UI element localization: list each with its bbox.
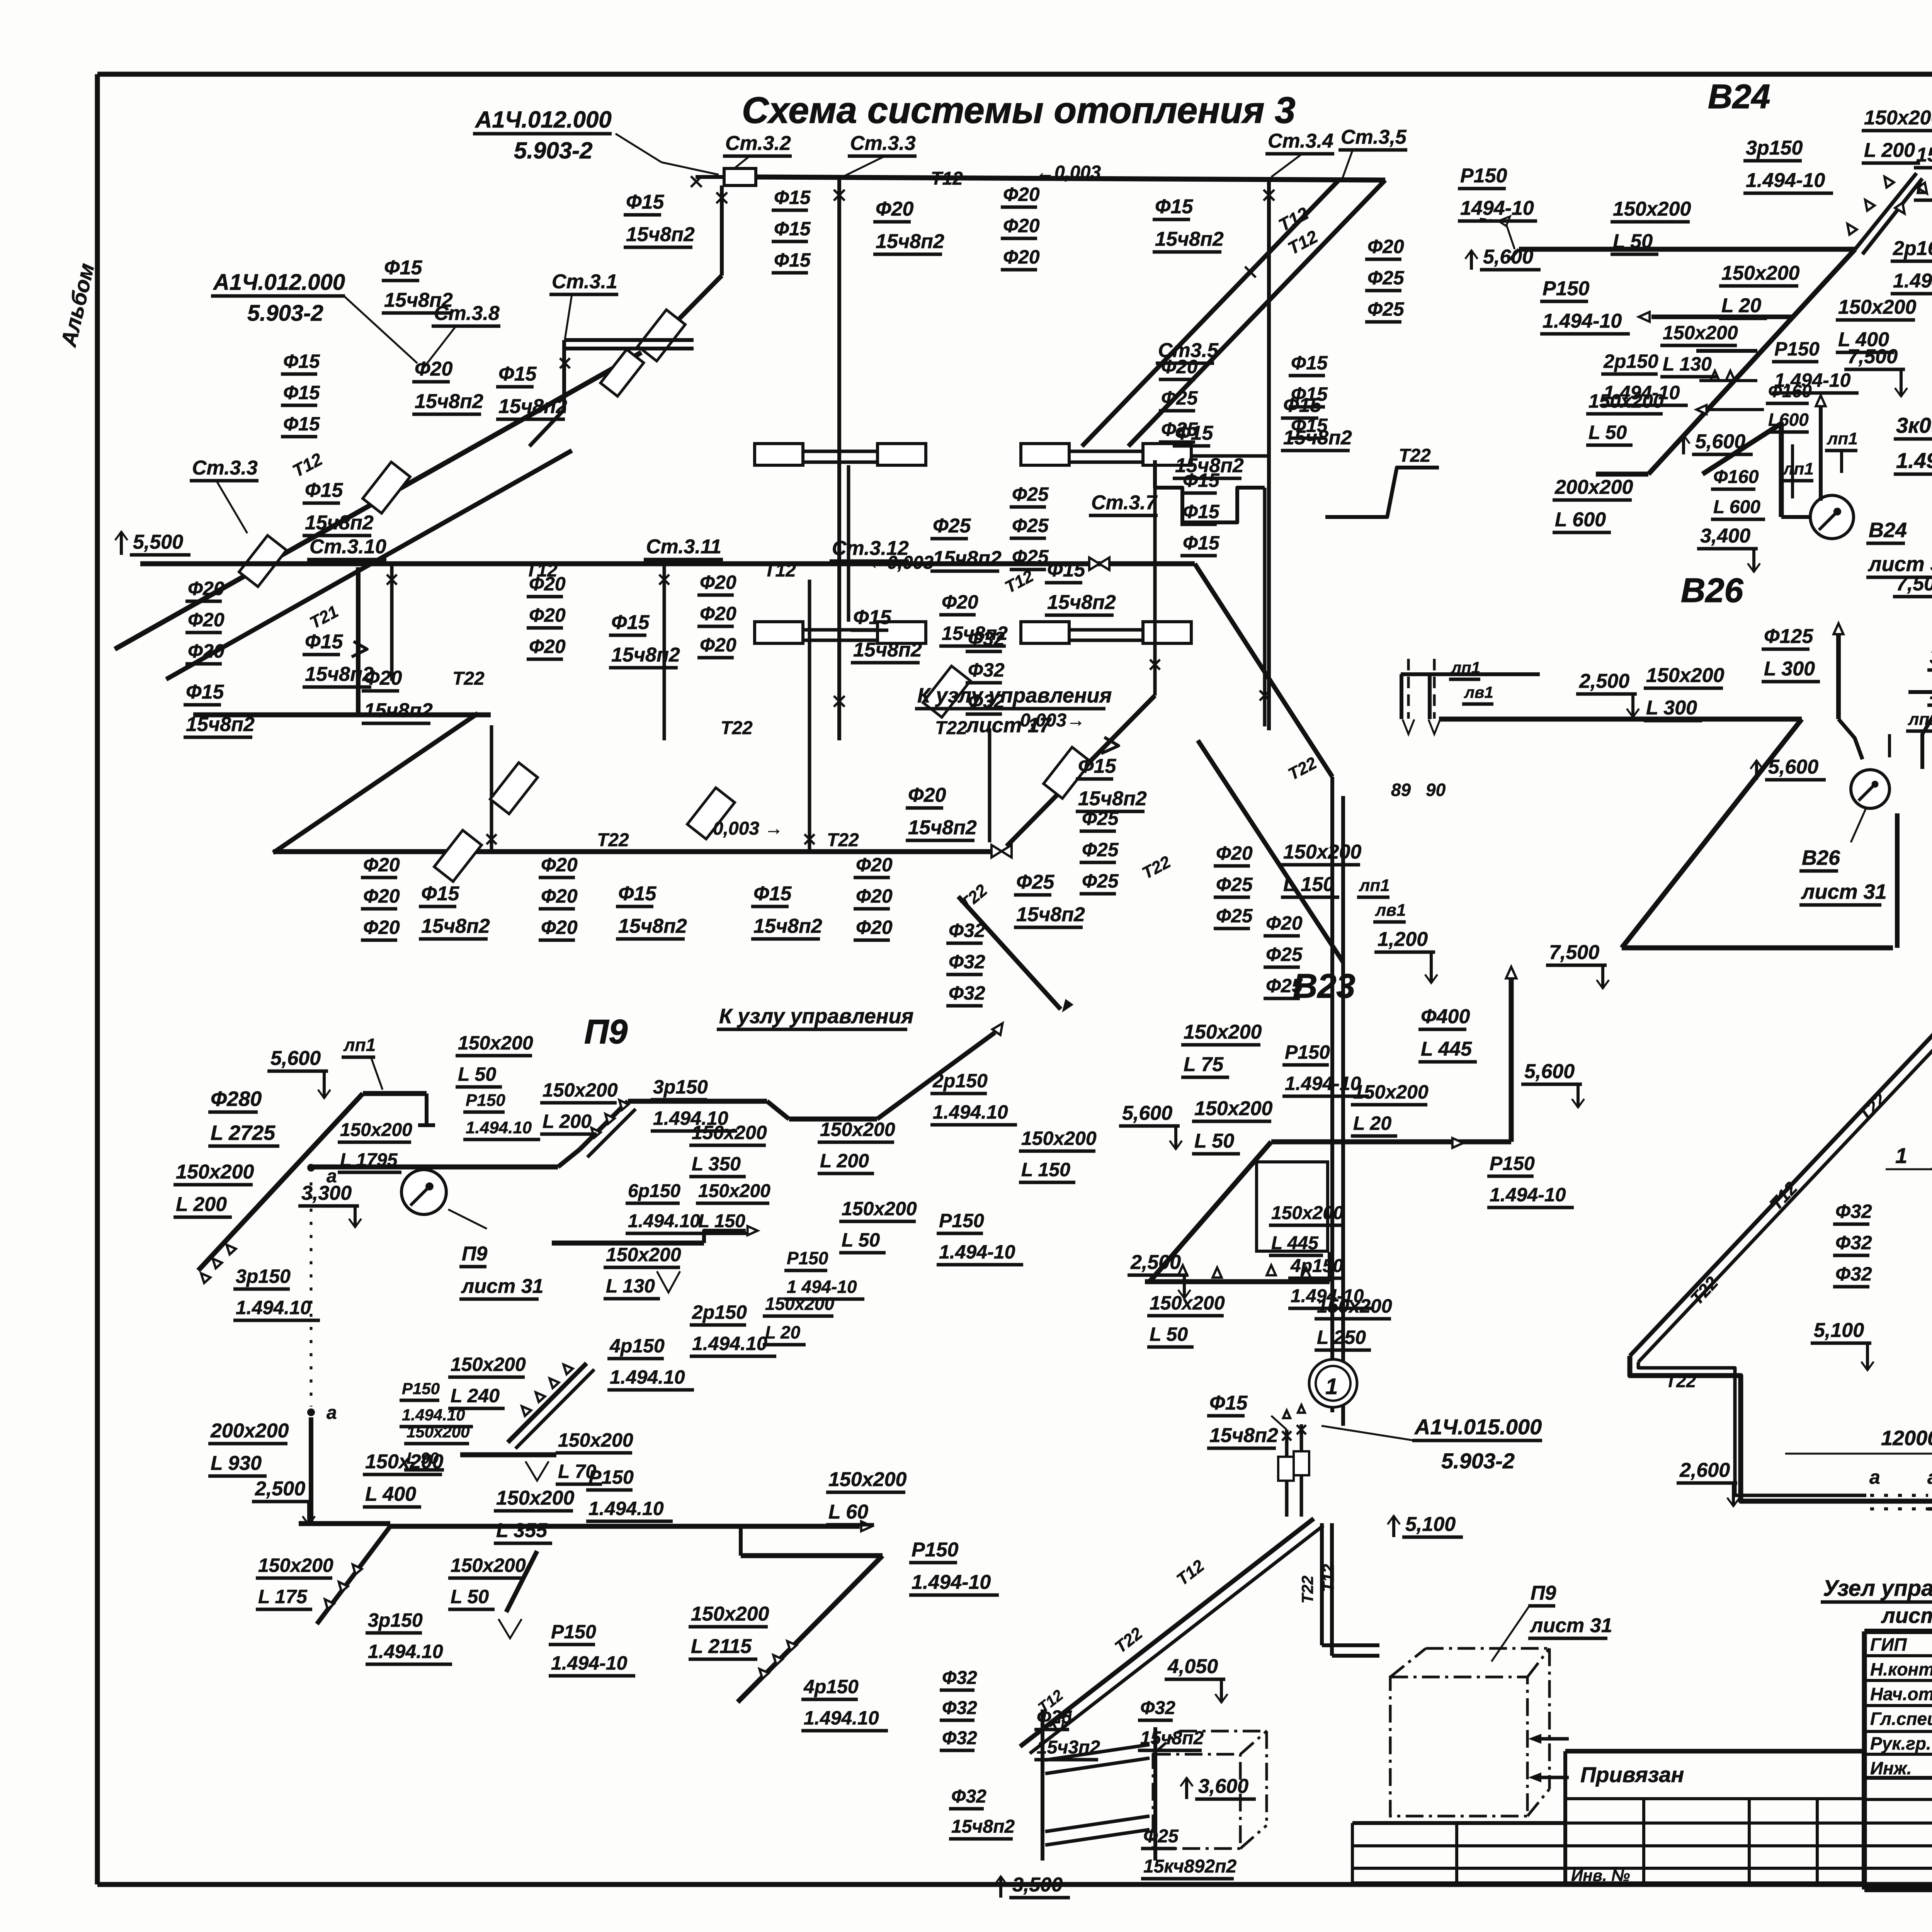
svg-text:150х200: 150х200 bbox=[1663, 322, 1738, 344]
svg-text:Р150: Р150 bbox=[1460, 165, 1507, 187]
svg-text:150х200: 150х200 bbox=[1838, 296, 1917, 318]
svg-text:Ф20: Ф20 bbox=[1367, 236, 1404, 257]
elev B26 5600b bbox=[1750, 756, 1826, 780]
svg-text:L 200: L 200 bbox=[543, 1111, 592, 1132]
svg-text:L 2725: L 2725 bbox=[211, 1121, 276, 1145]
label P9 150x200 L400 bbox=[363, 1451, 444, 1507]
svg-text:лист 17: лист 17 bbox=[1881, 1603, 1932, 1628]
label Ф15 bot2 bbox=[616, 883, 687, 939]
label Ф20 stack top bbox=[1001, 184, 1040, 270]
svg-text:Ф20: Ф20 bbox=[529, 636, 566, 657]
svg-text:Ф15: Ф15 bbox=[774, 218, 811, 240]
svg-text:L600: L600 bbox=[1768, 410, 1809, 430]
svg-text:15ч8п2: 15ч8п2 bbox=[626, 223, 695, 246]
svg-text:Ф25: Ф25 bbox=[1216, 874, 1253, 895]
svg-text:Ф400: Ф400 bbox=[1421, 1005, 1470, 1028]
label P9 150x200 L240 bbox=[448, 1354, 526, 1408]
svg-text:5,600: 5,600 bbox=[270, 1047, 321, 1070]
arrow end control node bbox=[1059, 1000, 1073, 1014]
svg-text:150х200: 150х200 bbox=[691, 1603, 769, 1625]
svg-text:3к00.000: 3к00.000 bbox=[1930, 644, 1932, 668]
svg-text:15ч8п2: 15ч8п2 bbox=[364, 699, 433, 722]
svg-text:7,500: 7,500 bbox=[1896, 573, 1932, 595]
svg-text:Схема системы отопления 3: Схема системы отопления 3 bbox=[742, 90, 1295, 131]
radiator slanted B5 bbox=[1044, 747, 1091, 799]
svg-text:Ф20: Ф20 bbox=[876, 198, 914, 220]
svg-text:Ф15: Ф15 bbox=[1047, 559, 1086, 581]
pipe B24 fan link bbox=[1781, 515, 1811, 519]
valve st35B bbox=[1260, 690, 1270, 701]
label Ст3.10 bbox=[307, 536, 386, 560]
svg-text:В23: В23 bbox=[1293, 967, 1355, 1005]
pipe Ст3.1 double h B bbox=[564, 347, 694, 350]
radiator Ст3.4 r1 right bbox=[1143, 444, 1191, 465]
label B26 лп1 лв1 bbox=[1449, 658, 1480, 679]
label P9 Р150 c bbox=[400, 1379, 473, 1427]
label Ф20 g bbox=[362, 667, 433, 723]
wire node1 mid riser bbox=[1153, 1727, 1157, 1861]
svg-text:150х200: 150х200 bbox=[1283, 841, 1362, 863]
svg-text:Ф25: Ф25 bbox=[1161, 418, 1198, 440]
arrow P9 2p150 V bbox=[657, 1271, 680, 1293]
label P9 3р150 b bbox=[651, 1076, 737, 1131]
label Ф15 15ч8п2 a bbox=[1153, 196, 1224, 252]
svg-text:L 50: L 50 bbox=[451, 1586, 489, 1607]
svg-text:Т22: Т22 bbox=[1665, 1371, 1696, 1391]
svg-text:150х200: 150х200 bbox=[1317, 1295, 1392, 1317]
pipe P9 h L130 bbox=[552, 1241, 704, 1246]
label P9 150x200 L2115 bbox=[689, 1603, 769, 1659]
label P9 150x200 L150a bbox=[1019, 1128, 1097, 1182]
wire B26 lp stub bbox=[1888, 734, 1891, 757]
arrow P9 exit3 tris bbox=[756, 1666, 769, 1679]
label P9 150x200 L355 bbox=[494, 1487, 575, 1543]
pipe Ст3.4 r1 to riser bbox=[1192, 454, 1269, 458]
page border frame bbox=[97, 72, 1932, 77]
arrow B24 h2 bbox=[1639, 312, 1650, 321]
svg-text:150х200: 150х200 bbox=[558, 1429, 633, 1451]
elev P9 2500 bbox=[252, 1478, 315, 1525]
svg-text:Ф32: Ф32 bbox=[942, 1668, 977, 1688]
svg-text:L 400: L 400 bbox=[365, 1483, 416, 1505]
label P9 лп1 bbox=[342, 1035, 376, 1057]
svg-text:L 930: L 930 bbox=[211, 1452, 262, 1475]
radiator Ст3.3 r2 left bbox=[755, 622, 803, 643]
pipe B23 diagonal bbox=[1150, 1142, 1271, 1282]
svg-text:Ф20: Ф20 bbox=[364, 667, 402, 689]
pipe B25 pair cont bbox=[1928, 1507, 1932, 1511]
arrow B24 t1 bbox=[1711, 371, 1719, 380]
radiator slanted A1 bbox=[638, 310, 685, 361]
elev B25 5100 bbox=[1811, 1319, 1874, 1370]
pipe node1 diag pair A bbox=[1020, 1519, 1314, 1747]
pipe T12 diag down A bbox=[1128, 180, 1385, 446]
svg-text:L 175: L 175 bbox=[258, 1586, 308, 1607]
svg-text:Ф25: Ф25 bbox=[933, 515, 971, 537]
valve lower riser2 bbox=[804, 834, 815, 844]
svg-text:лп1: лп1 bbox=[1827, 429, 1858, 448]
svg-text:П9: П9 bbox=[584, 1012, 628, 1051]
svg-text:Ф15: Ф15 bbox=[283, 413, 320, 435]
label Ст3.5 b bbox=[1156, 339, 1219, 363]
svg-text:Ф15: Ф15 bbox=[384, 257, 423, 279]
svg-text:Ф25: Ф25 bbox=[1161, 387, 1198, 409]
svg-text:L 20: L 20 bbox=[1721, 294, 1761, 317]
svg-text:Ф32: Ф32 bbox=[949, 920, 985, 941]
point a bottom bbox=[307, 1408, 315, 1416]
label Ф32 stack a bbox=[966, 628, 1005, 714]
svg-text:Ф25: Ф25 bbox=[1016, 871, 1055, 893]
svg-text:Ф20: Ф20 bbox=[700, 634, 736, 656]
svg-text:Инв. №: Инв. № bbox=[1571, 1866, 1630, 1884]
pipe B23 right ext bbox=[1328, 1252, 1332, 1282]
label B24 Р150 b bbox=[1540, 277, 1630, 334]
pipe T22 Z diag bbox=[273, 713, 478, 853]
wire node1 riser a bbox=[1285, 1430, 1289, 1517]
elev node1 3500 bbox=[995, 1874, 1070, 1898]
svg-text:Ф32: Ф32 bbox=[942, 1698, 977, 1718]
elev B24 7500 bbox=[1844, 345, 1907, 396]
label P9 150x200 L350 bbox=[689, 1122, 767, 1177]
label node1 Ф32 stack bbox=[940, 1668, 977, 1750]
svg-text:Р150: Р150 bbox=[1285, 1041, 1330, 1063]
component node1 box a bbox=[1278, 1457, 1294, 1481]
arrow P9 diag tip bbox=[992, 1020, 1007, 1035]
svg-text:15ч8п2: 15ч8п2 bbox=[305, 512, 374, 534]
label B24 150x200 L50a bbox=[1611, 198, 1691, 254]
label Ст3.3 left bbox=[190, 457, 259, 481]
arrow P9 V mid bbox=[526, 1461, 549, 1481]
svg-text:L 240: L 240 bbox=[451, 1385, 500, 1406]
label B24 150x200 L50b bbox=[1586, 390, 1664, 445]
wire P9 vert left bbox=[309, 1417, 313, 1524]
label лп1 r bbox=[1357, 876, 1390, 897]
svg-text:1.494.10: 1.494.10 bbox=[610, 1366, 685, 1388]
label B24 2р150 bbox=[1601, 350, 1688, 405]
label Ф20 под ст38 bbox=[412, 358, 483, 414]
svg-text:Р150: Р150 bbox=[402, 1379, 440, 1398]
wire riser st311 bbox=[663, 564, 666, 740]
arrow B24 dd1 bbox=[1861, 197, 1874, 211]
wire node1 vert pair B bbox=[1330, 1523, 1334, 1656]
svg-text:150х200: 150х200 bbox=[692, 1122, 767, 1143]
label Ст3.5 top bbox=[1338, 126, 1407, 150]
label Ст3.8 bbox=[432, 302, 500, 326]
svg-text:В26: В26 bbox=[1802, 846, 1840, 869]
label Ф15 n bbox=[1281, 394, 1352, 451]
svg-text:5,100: 5,100 bbox=[1814, 1319, 1864, 1342]
svg-text:150х200: 150х200 bbox=[258, 1554, 333, 1576]
label к узлу упр 1 bbox=[915, 684, 1112, 709]
svg-text:7,500: 7,500 bbox=[1549, 941, 1599, 964]
elev P9 3300 bbox=[298, 1182, 361, 1227]
svg-text:Ф15: Ф15 bbox=[1183, 469, 1220, 491]
pipe B23 f400 vert bbox=[1509, 978, 1514, 1142]
wire B24 lp1 stub bbox=[1791, 444, 1794, 498]
label Ст3.1 bbox=[549, 270, 618, 294]
svg-text:Ф25: Ф25 bbox=[1266, 944, 1303, 965]
svg-text:L 150: L 150 bbox=[1021, 1159, 1070, 1180]
svg-text:Ф20: Ф20 bbox=[942, 591, 978, 613]
svg-text:L 2115: L 2115 bbox=[691, 1635, 752, 1658]
svg-text:3,300: 3,300 bbox=[301, 1182, 352, 1204]
label node1 Ф15 bbox=[1207, 1392, 1278, 1448]
svg-text:1.494-10: 1.494-10 bbox=[1490, 1184, 1566, 1206]
arrow B26 down b bbox=[1429, 719, 1440, 734]
svg-text:Ф32: Ф32 bbox=[1140, 1698, 1175, 1718]
svg-text:1.494.10: 1.494.10 bbox=[628, 1211, 700, 1231]
svg-text:150х200: 150х200 bbox=[458, 1032, 533, 1054]
svg-text:7,500: 7,500 bbox=[1847, 345, 1898, 368]
pipe st35 zigzag bbox=[1155, 460, 1265, 522]
radiator slanted B2 bbox=[434, 830, 482, 882]
svg-text:Ст.3.4: Ст.3.4 bbox=[1268, 130, 1333, 152]
label P9 150x200 L1795 bbox=[338, 1120, 412, 1172]
label Ф20 o bbox=[906, 784, 977, 840]
svg-text:Ф15: Ф15 bbox=[283, 350, 320, 372]
arrow B24 h5 bbox=[1696, 405, 1706, 414]
svg-text:150х200: 150х200 bbox=[1721, 262, 1800, 284]
label Ф15 triple b bbox=[281, 350, 320, 437]
svg-text:L 150: L 150 bbox=[698, 1211, 745, 1231]
svg-text:Ст.3.1: Ст.3.1 bbox=[552, 270, 617, 293]
pipe node1 diag pair B bbox=[1030, 1526, 1323, 1753]
svg-text:150х200: 150х200 bbox=[340, 1120, 412, 1140]
elev node1 5100 bbox=[1388, 1513, 1463, 1537]
label P9 4р150 b bbox=[801, 1676, 888, 1731]
label 150x200 L150 bbox=[1281, 841, 1362, 897]
svg-text:Ф15: Ф15 bbox=[1183, 532, 1220, 554]
label P9 3р150 c bbox=[366, 1609, 452, 1664]
svg-text:5.903-2: 5.903-2 bbox=[1441, 1449, 1515, 1473]
radiator slanted C1 bbox=[600, 349, 644, 396]
pipe P9 diag exit1 bbox=[317, 1526, 390, 1624]
svg-text:Инж.: Инж. bbox=[1870, 1758, 1912, 1778]
svg-text:15кч892п2: 15кч892п2 bbox=[1143, 1856, 1236, 1877]
svg-text:Ст.3.12: Ст.3.12 bbox=[832, 537, 909, 560]
wire T22 Z vertical bbox=[356, 567, 361, 713]
arrow B24 riser top bbox=[1816, 395, 1825, 406]
svg-text:3р150: 3р150 bbox=[236, 1265, 291, 1287]
label Ф15 d bbox=[303, 479, 374, 536]
pipe P9 diag up right bbox=[877, 1032, 995, 1119]
svg-text:1: 1 bbox=[1895, 1143, 1907, 1168]
label Ф15 triple a bbox=[772, 187, 811, 273]
elev B23 5600b bbox=[1521, 1060, 1584, 1107]
arrow B26 riser top bbox=[1833, 623, 1843, 634]
svg-text:А1Ч.012.000: А1Ч.012.000 bbox=[213, 270, 345, 295]
elev node1 4050 bbox=[1165, 1655, 1228, 1702]
valve T22 bottom 2 bbox=[992, 845, 1012, 857]
svg-text:4,050: 4,050 bbox=[1167, 1655, 1218, 1678]
valve lower riser1 bbox=[486, 834, 497, 844]
label B24 3р150 bbox=[1743, 137, 1833, 193]
wire riser st310 bbox=[390, 564, 394, 681]
pipe B24 main h bbox=[1519, 247, 1855, 252]
svg-text:Ф20: Ф20 bbox=[541, 885, 578, 907]
label node1 Ф32 b bbox=[1138, 1698, 1204, 1750]
svg-text:а: а bbox=[1869, 1466, 1880, 1488]
svg-text:15ч8п2: 15ч8п2 bbox=[611, 644, 680, 666]
svg-text:1.494-10: 1.494-10 bbox=[939, 1241, 1015, 1263]
wire st35 riser B bbox=[1263, 488, 1267, 726]
svg-text:Т12: Т12 bbox=[931, 168, 963, 189]
svg-text:П9: П9 bbox=[462, 1243, 487, 1265]
pipe B25 elbow bottom bbox=[1630, 1356, 1932, 1564]
svg-text:лист 31: лист 31 bbox=[1801, 880, 1887, 903]
pipe B23 top bar bbox=[1271, 1139, 1511, 1145]
svg-text:L 50: L 50 bbox=[1588, 422, 1627, 443]
svg-text:лп1: лп1 bbox=[1451, 658, 1480, 677]
svg-text:150х200: 150х200 bbox=[1864, 107, 1932, 129]
label Ст3.2 bbox=[723, 132, 792, 156]
svg-text:150х200: 150х200 bbox=[1646, 664, 1725, 687]
pipe B26 bottom h bbox=[1622, 946, 1893, 951]
elev 5,500 bbox=[115, 531, 190, 555]
svg-text:Ф20: Ф20 bbox=[700, 571, 736, 593]
svg-text:15ч8п2: 15ч8п2 bbox=[415, 390, 483, 413]
label Ф20 j bbox=[939, 591, 1008, 646]
svg-text:Ф20: Ф20 bbox=[856, 917, 893, 938]
arrow P9 mid tris bbox=[519, 1403, 531, 1416]
svg-text:лп1: лп1 bbox=[1359, 876, 1390, 895]
arrow tankB in1 bbox=[1538, 1737, 1569, 1741]
svg-text:Т22: Т22 bbox=[827, 830, 859, 850]
svg-text:15ч8п2: 15ч8п2 bbox=[618, 915, 687, 937]
valve node1 a bbox=[1282, 1431, 1291, 1440]
label P9 200x200 L930 bbox=[208, 1420, 289, 1476]
label P9 150x200 L70 bbox=[556, 1429, 633, 1484]
svg-text:89: 89 bbox=[1391, 780, 1411, 800]
label B26 ф125 a bbox=[1762, 625, 1820, 682]
svg-text:150х200: 150х200 bbox=[1021, 1128, 1097, 1149]
svg-text:Р150: Р150 bbox=[466, 1091, 505, 1110]
svg-text:200х200: 200х200 bbox=[210, 1420, 289, 1442]
pipe B26 S curve bbox=[1838, 719, 1862, 759]
pipe node1 cross pair2 bbox=[1045, 1816, 1150, 1832]
svg-text:ГИП: ГИП bbox=[1870, 1634, 1907, 1655]
label B24 2р160 bbox=[1891, 237, 1932, 294]
label B23 150x200 L445 bbox=[1269, 1203, 1344, 1255]
wire P9 top stub bbox=[425, 1094, 429, 1125]
pipe B24 h3 bbox=[1696, 349, 1757, 353]
svg-text:1.494-32: 1.494-32 bbox=[1896, 448, 1932, 473]
elev B25 2600 bbox=[1677, 1459, 1740, 1506]
fan В26 bbox=[1851, 770, 1889, 808]
pipe P9 mid connect bbox=[556, 1430, 587, 1455]
svg-text:Ст.3.11: Ст.3.11 bbox=[646, 536, 721, 558]
svg-text:Т22: Т22 bbox=[597, 830, 629, 850]
pipe P9 h sub bbox=[741, 1553, 883, 1558]
pipe node1 elbow A bbox=[1322, 1643, 1379, 1647]
svg-text:Р150: Р150 bbox=[912, 1539, 959, 1561]
label Ф15 bot3 bbox=[751, 883, 822, 939]
pipe P9 mid bundle B bbox=[515, 1369, 594, 1449]
svg-text:Ф25: Ф25 bbox=[1082, 870, 1119, 892]
label P9 ф280 bbox=[208, 1087, 279, 1146]
elev node1 3600 bbox=[1180, 1775, 1256, 1799]
svg-text:L 160: L 160 bbox=[1916, 176, 1932, 199]
svg-text:Ф20: Ф20 bbox=[529, 573, 566, 595]
wire B24 lp1 stub2 bbox=[1840, 451, 1843, 473]
svg-text:Ф20: Ф20 bbox=[188, 640, 224, 662]
svg-text:Ф15: Ф15 bbox=[498, 363, 537, 385]
svg-text:1: 1 bbox=[1325, 1374, 1338, 1399]
pipe P9 jog diag bbox=[558, 1150, 580, 1167]
label P9 150x200 L50d bbox=[448, 1554, 526, 1609]
svg-text:L 50: L 50 bbox=[1613, 230, 1653, 253]
svg-text:5,100: 5,100 bbox=[1405, 1513, 1456, 1536]
elev B24 5600 left bbox=[1465, 246, 1541, 270]
pipe P9 bottom short h bbox=[299, 1521, 390, 1526]
arrow P9 bundle tris bbox=[588, 1125, 600, 1138]
elev B23 2500 bbox=[1128, 1251, 1190, 1298]
svg-text:L 445: L 445 bbox=[1421, 1038, 1472, 1060]
svg-text:L 130: L 130 bbox=[1663, 353, 1712, 375]
svg-text:12000: 12000 bbox=[1881, 1427, 1932, 1450]
arrow P9 main tip bbox=[861, 1521, 872, 1531]
label B23 4р150 bbox=[1288, 1256, 1371, 1308]
svg-text:1.494-10: 1.494-10 bbox=[1543, 310, 1622, 332]
svg-text:3р150: 3р150 bbox=[1746, 137, 1803, 159]
svg-text:Ф20: Ф20 bbox=[1003, 215, 1040, 236]
svg-text:5,600: 5,600 bbox=[1524, 1060, 1575, 1083]
label node1 Ф25 b bbox=[1141, 1826, 1236, 1879]
svg-text:Ст.3.8: Ст.3.8 bbox=[434, 302, 500, 325]
pipe P9 main long h bbox=[390, 1524, 860, 1529]
label B24 150x200 L160 bbox=[1914, 144, 1932, 200]
svg-text:А1Ч.015.000: А1Ч.015.000 bbox=[1414, 1415, 1542, 1439]
pipe T12 mid main bbox=[140, 561, 1195, 566]
pipe B23 bottom bar bbox=[1145, 1279, 1330, 1284]
svg-text:Ф25: Ф25 bbox=[1367, 298, 1405, 320]
svg-text:Ф15: Ф15 bbox=[1183, 501, 1220, 522]
label Ст3.4 bbox=[1265, 130, 1334, 154]
svg-text:L 250: L 250 bbox=[1317, 1327, 1366, 1348]
svg-text:L 200: L 200 bbox=[1864, 139, 1915, 162]
svg-text:150х200: 150х200 bbox=[1588, 390, 1664, 412]
fan В24 bbox=[1810, 495, 1854, 539]
svg-text:лп1: лп1 bbox=[1908, 710, 1932, 729]
svg-text:Ф32: Ф32 bbox=[968, 659, 1005, 681]
radiator slanted A3 bbox=[239, 536, 287, 587]
label Ст3.3 bbox=[848, 132, 917, 156]
svg-text:Ф15: Ф15 bbox=[1291, 383, 1328, 405]
label Ф15 left bbox=[382, 257, 453, 313]
svg-text:Ф15: Ф15 bbox=[421, 883, 460, 905]
svg-text:1.494-10: 1.494-10 bbox=[912, 1571, 991, 1594]
pipe B24 duct diag pair A bbox=[1855, 173, 1917, 249]
pipe P9 main h1 bbox=[311, 1165, 558, 1170]
svg-text:Ф20: Ф20 bbox=[1266, 912, 1303, 934]
svg-text:Ст3.5: Ст3.5 bbox=[1158, 339, 1219, 362]
svg-text:Ф20: Ф20 bbox=[363, 854, 400, 876]
wire P9 sub connect bbox=[739, 1526, 743, 1556]
svg-text:1.494.10: 1.494.10 bbox=[466, 1118, 532, 1137]
label Ф25 stack bbox=[1010, 483, 1049, 570]
label Ф25 p bbox=[1014, 871, 1085, 927]
svg-text:Ф15: Ф15 bbox=[305, 479, 344, 502]
arrow B23 right bbox=[1452, 1138, 1463, 1148]
svg-text:Ф15: Ф15 bbox=[618, 883, 657, 905]
svg-text:Ф20: Ф20 bbox=[908, 784, 946, 806]
svg-text:1.494.10: 1.494.10 bbox=[804, 1707, 879, 1729]
svg-text:150х200: 150х200 bbox=[1613, 198, 1691, 220]
svg-text:←0,003: ←0,003 bbox=[1036, 162, 1101, 183]
label P9 150x200 L175 bbox=[256, 1554, 333, 1609]
svg-text:150х200: 150х200 bbox=[406, 1423, 470, 1441]
svg-text:Р150: Р150 bbox=[787, 1248, 828, 1268]
